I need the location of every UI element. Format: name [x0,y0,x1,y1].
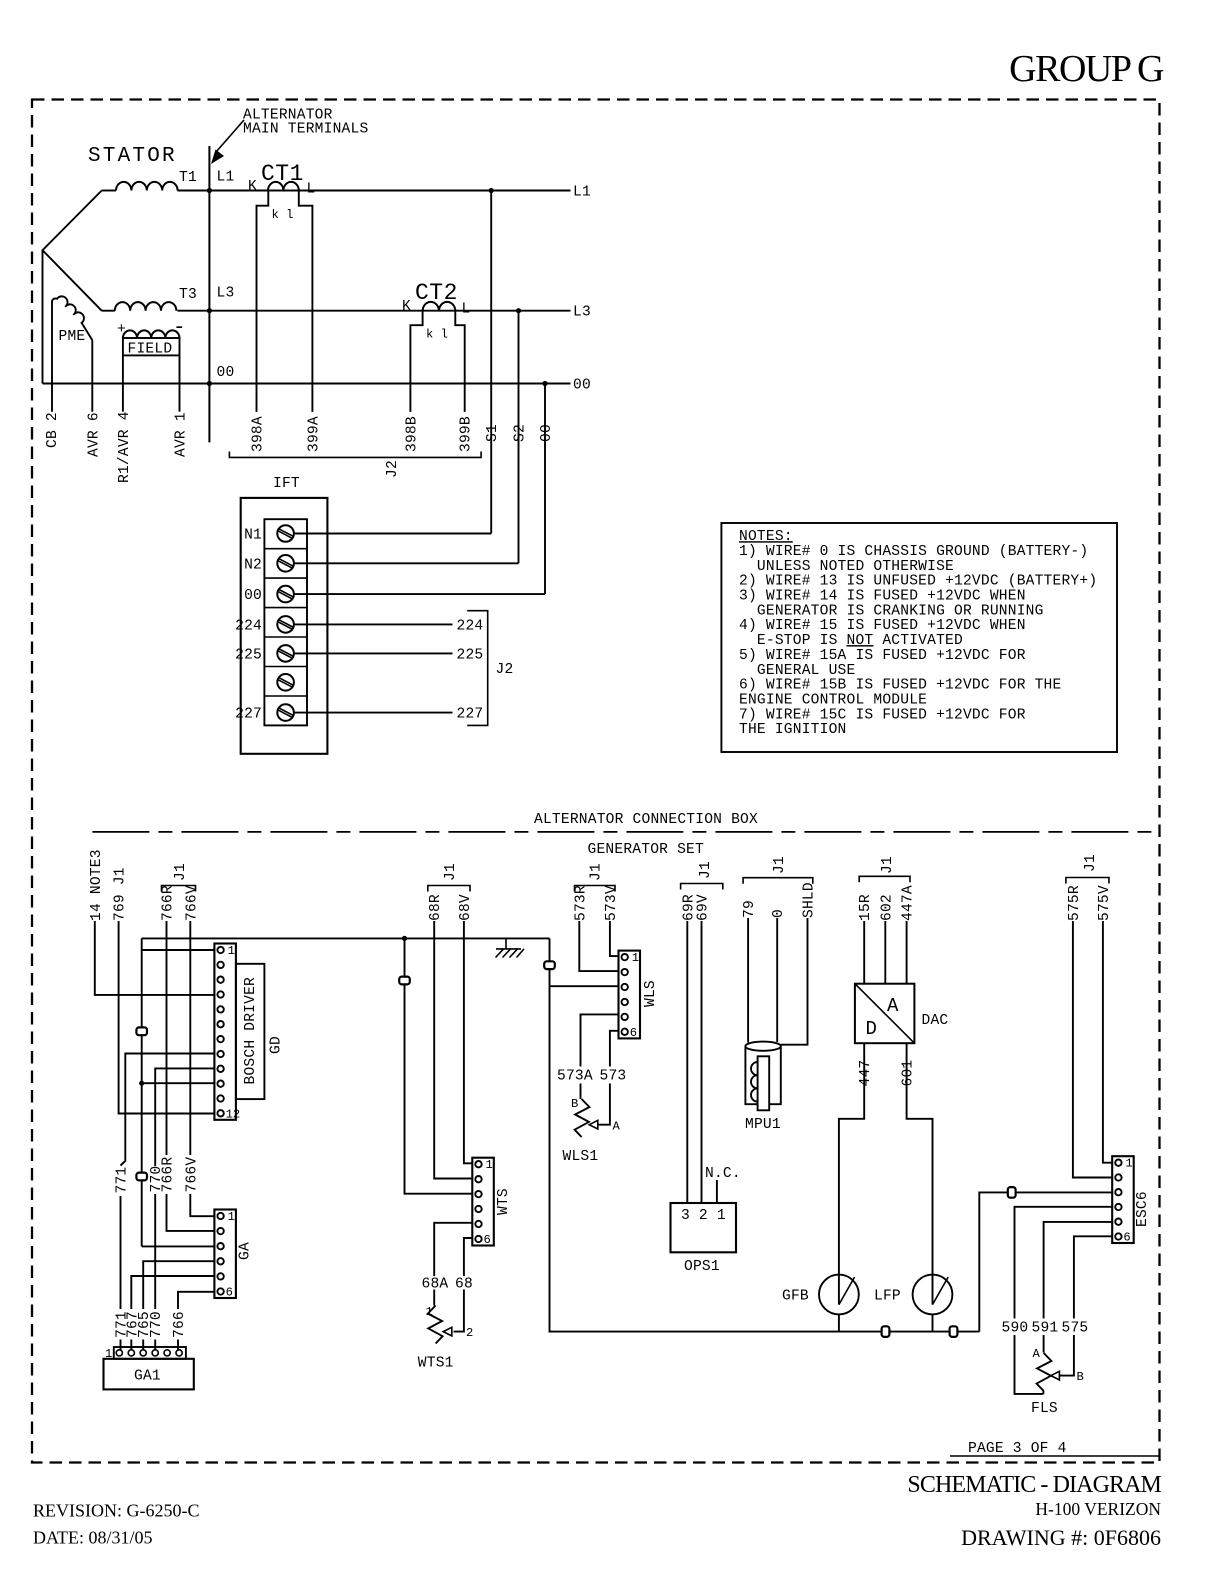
svg-text:0: 0 [771,909,787,918]
wire AVR 6 [91,340,93,412]
svg-text:J1: J1 [173,863,189,881]
svg-text:CB 2: CB 2 [45,412,61,448]
svg-text:D: D [866,1018,877,1040]
switch OPS1 [671,1203,737,1252]
wire 573R to WLS pin2 [579,921,618,971]
svg-text:J1: J1 [443,863,459,881]
svg-text:227: 227 [235,707,262,723]
wire 601 [907,1043,933,1304]
svg-text:k l: k l [426,328,448,342]
wire 447A to DAC [906,921,908,984]
svg-text:k l: k l [272,208,294,222]
bracket J1 (766R/766V) [162,886,196,892]
svg-text:399A: 399A [306,416,322,452]
wire 573A [581,1014,619,1099]
svg-text:68: 68 [455,1277,473,1293]
svg-text:79: 79 [742,900,758,918]
svg-text:SCHEMATIC - DIAGRAM: SCHEMATIC - DIAGRAM [907,1472,1161,1498]
ground bus wire [142,937,550,939]
wire 766 [178,1292,214,1350]
svg-text:B: B [571,1097,578,1111]
wire 765 [143,1261,214,1350]
svg-text:399B: 399B [459,416,475,452]
svg-text:573V: 573V [604,885,620,921]
module BOSCH DRIVER [236,964,265,1099]
svg-text:447: 447 [858,1060,874,1087]
svg-text:225: 225 [457,647,484,663]
wire 602 to DAC [884,921,886,984]
splice on ESC6 feed [1008,1187,1016,1198]
svg-text:K: K [402,299,411,315]
svg-text:WTS1: WTS1 [418,1356,454,1372]
svg-text:591: 591 [1032,1321,1059,1337]
svg-text:AVR 1: AVR 1 [174,412,190,457]
wire 447 [839,1043,864,1304]
svg-text:WLS1: WLS1 [563,1149,599,1165]
svg-text:1) WIRE# 0 IS CHASSIS GROUND (: 1) WIRE# 0 IS CHASSIS GROUND (BATTERY-) [739,544,1088,560]
svg-text:J1: J1 [698,861,714,879]
connector WTS (6-pin) [472,1158,494,1246]
svg-text:GENERATOR IS CRANKING OR RUNNI: GENERATOR IS CRANKING OR RUNNING [739,603,1044,619]
splice on bottom bus (right) [950,1326,958,1337]
wire CB 2 [51,301,53,412]
svg-text:MAIN TERMINALS: MAIN TERMINALS [243,122,368,138]
stator winding T1 [102,190,116,192]
svg-text:6: 6 [484,1233,491,1247]
bracket J1 (DAC) [859,876,910,882]
wire riser to ESC6 pin3 [979,1192,1112,1331]
svg-text:A: A [1033,1347,1041,1361]
svg-text:6: 6 [1123,1231,1130,1245]
svg-text:-: - [173,317,188,340]
svg-text:T1: T1 [179,170,197,186]
wire 225 [294,652,453,654]
page dashed border [32,100,1160,1463]
svg-text:STATOR: STATOR [88,145,177,168]
svg-text:N2: N2 [244,557,262,573]
wire 575R to ESC6 pin2 [1073,921,1112,1178]
svg-text:PAGE 3 OF 4: PAGE 3 OF 4 [968,1441,1067,1457]
svg-text:766R: 766R [161,885,177,921]
svg-text:J1: J1 [880,856,896,874]
IFT terminal (blank) screw [277,674,294,691]
wire 14 NOTE3 to GD pin4 [95,921,215,995]
svg-text:447A: 447A [901,885,917,921]
svg-text:00: 00 [573,378,591,394]
svg-text:GA: GA [238,1242,254,1260]
sensor FLS [1037,1353,1052,1391]
wire 68R to WTS pin2 [434,921,472,1179]
svg-text:FLS: FLS [1031,1401,1058,1417]
wire 590 [1015,1207,1113,1394]
wire 00 line [43,383,571,385]
wire 15R to DAC [863,921,865,984]
svg-text:6: 6 [226,1286,233,1300]
svg-text:K: K [248,179,257,195]
svg-text:J2: J2 [385,460,401,478]
wire SHLD to MPU1 [781,918,808,1045]
svg-text:2) WIRE# 13 IS UNFUSED +12VDC: 2) WIRE# 13 IS UNFUSED +12VDC (BATTERY+) [739,574,1097,590]
svg-text:E-STOP IS NOT ACTIVATED: E-STOP IS NOT ACTIVATED [739,633,963,649]
exciter PME [52,296,92,340]
bracket J2 (CT secondary harness) [229,452,481,458]
svg-text:771: 771 [115,1167,131,1194]
IFT terminal 00 screw [277,586,294,603]
svg-text:00: 00 [539,424,555,442]
svg-text:770: 770 [149,1166,165,1193]
svg-text:T3: T3 [179,287,197,303]
svg-text:S1: S1 [485,424,501,442]
svg-text:575R: 575R [1067,885,1083,921]
sensor WLS1 [575,1099,590,1137]
wire 224 [294,623,453,625]
svg-text:L1: L1 [217,170,235,186]
svg-text:573A: 573A [557,1069,593,1085]
wire 227 [294,712,453,714]
svg-text:L3: L3 [573,305,591,321]
svg-text:573: 573 [600,1069,627,1085]
IFT terminal N2 screw [277,555,294,572]
main ground drop wire [550,938,980,1331]
svg-text:SHLD: SHLD [802,882,818,918]
svg-text:14 NOTE3: 14 NOTE3 [89,849,105,921]
svg-text:1: 1 [228,944,235,958]
svg-text:N1: N1 [244,528,262,544]
svg-text:1: 1 [632,951,639,965]
svg-text:7) WIRE# 15C IS FUSED +12VDC F: 7) WIRE# 15C IS FUSED +12VDC FOR [739,707,1026,723]
CT2 secondary wires [410,311,464,412]
wire 79 to MPU1 [747,918,749,1043]
wire N1 to S1 [294,533,491,535]
breaker LFP [913,1275,953,1315]
bracket J1 (ESC6) [1066,878,1109,884]
splice on wire 0 [136,1027,147,1035]
svg-text:15R: 15R [858,894,874,921]
IFT terminal N1 screw [277,525,294,542]
svg-text:766: 766 [172,1311,188,1338]
svg-text:S2: S2 [513,424,529,442]
svg-text:769 J1: 769 J1 [113,867,129,921]
svg-text:CT1: CT1 [261,161,304,187]
IFT terminal 227 screw [277,704,294,721]
svg-text:L: L [307,182,316,198]
svg-text:68A: 68A [422,1277,449,1293]
svg-text:68V: 68V [458,894,474,921]
wire R1/AVR 4 [122,355,124,411]
bracket J1 (69R/69V) [681,884,723,890]
svg-text:575: 575 [1062,1321,1089,1337]
converter DAC [855,984,915,1043]
wire 766R to GA pin2 [167,921,215,1231]
node L1/S1 junction [489,188,494,193]
svg-text:12: 12 [226,1107,241,1121]
connector GD (12-pin) [214,944,236,1120]
svg-text:B: B [1077,1370,1084,1384]
wire 766V to GA pin1 [190,921,214,1216]
svg-text:573R: 573R [573,885,589,921]
wire L3 line [178,310,571,312]
svg-text:2: 2 [466,1326,473,1340]
field winding FIELD [123,330,180,338]
wire 769 to GD pin12 [119,921,215,1114]
wire 0 chain (bus to GD pin1/pin10, GA pin3) [142,938,215,1246]
svg-text:H-100 VERIZON: H-100 VERIZON [1035,1499,1161,1519]
svg-text:J1: J1 [589,863,605,881]
svg-text:1: 1 [426,1305,433,1319]
terminal strip of GA1 [114,1347,186,1359]
svg-text:68R: 68R [428,894,444,921]
svg-text:766V: 766V [184,885,200,921]
svg-text:REVISION: G-6250-C: REVISION: G-6250-C [33,1501,200,1521]
wire 00 drop [544,384,546,595]
wire S2 [518,311,520,564]
svg-text:BOSCH DRIVER: BOSCH DRIVER [243,977,259,1085]
svg-text:GENERAL USE: GENERAL USE [739,663,855,679]
breaker GFB [819,1275,859,1315]
svg-text:J1: J1 [1083,854,1099,872]
bracket J1 (68R/68V) [428,886,470,892]
svg-text:N.C.: N.C. [705,1166,741,1182]
wire 69R to OPS1 [686,921,688,1203]
svg-text:4) WIRE# 15 IS FUSED +12VDC WH: 4) WIRE# 15 IS FUSED +12VDC WHEN [739,618,1026,634]
bracket J2 (IFT outputs) [467,611,488,726]
module GA1 [104,1359,194,1390]
svg-text:6: 6 [630,1026,637,1040]
svg-text:FIELD: FIELD [128,342,173,358]
svg-text:227: 227 [457,707,484,723]
chassis ground symbol [496,938,525,957]
node L1/main-terminal junction [207,188,212,193]
NOTES box [721,523,1117,752]
stator winding T3 [102,310,115,312]
svg-text:WLS: WLS [643,980,659,1007]
svg-text:DRAWING #: 0F6806: DRAWING #: 0F6806 [961,1525,1161,1550]
svg-text:ESC6: ESC6 [1135,1191,1151,1227]
svg-text:3 2 1: 3 2 1 [681,1208,726,1224]
connector WLS (6-pin) [619,951,641,1039]
svg-text:ALTERNATOR CONNECTION BOX: ALTERNATOR CONNECTION BOX [534,812,758,828]
splice on bottom bus (left) [882,1326,890,1337]
svg-text:L3: L3 [217,286,235,302]
svg-text:224: 224 [235,618,262,634]
svg-text:GD: GD [269,1036,285,1054]
wire 68V to WTS pin1 [464,921,472,1163]
wire 591 [1044,1222,1113,1353]
svg-text:1: 1 [486,1158,493,1172]
alternator connection box dashed line [92,831,1155,833]
svg-text:R1/AVR 4: R1/AVR 4 [117,411,133,483]
wire 767 [131,1276,214,1350]
svg-text:398B: 398B [404,416,420,452]
connector ESC6 (6-pin) [1112,1156,1134,1243]
wye apex wires [43,191,102,384]
svg-text:1: 1 [1125,1157,1132,1171]
IFT terminal 224 screw [277,616,294,633]
pickup MPU1 [745,1042,780,1051]
svg-text:IFT: IFT [273,476,300,492]
wire N2 to S2 [294,562,519,564]
wire 68A [434,1223,472,1306]
svg-text:AVR 6: AVR 6 [87,412,103,457]
svg-text:DATE: 08/31/05: DATE: 08/31/05 [33,1528,153,1548]
wire 68 [454,1238,473,1332]
connector GA (6-pin) [214,1210,236,1299]
wire 0 to MPU1 [776,918,778,1042]
wire 573 [598,1031,619,1125]
svg-text:A: A [613,1120,621,1134]
svg-text:767: 767 [125,1311,141,1338]
svg-text:GENERATOR SET: GENERATOR SET [588,842,704,858]
svg-text:6) WIRE# 15B IS FUSED +12VDC F: 6) WIRE# 15B IS FUSED +12VDC FOR THE [739,678,1061,694]
svg-text:LFP: LFP [874,1289,901,1305]
node 00 junction [542,381,547,386]
node bus junction [402,936,407,941]
svg-text:THE IGNITION: THE IGNITION [739,722,847,738]
splice on WTS feed [399,977,410,985]
svg-text:1: 1 [228,1210,235,1224]
svg-text:NOTES:: NOTES: [739,529,793,545]
svg-text:00: 00 [244,588,262,604]
svg-text:ENGINE CONTROL MODULE: ENGINE CONTROL MODULE [739,692,927,708]
svg-text:UNLESS NOTED OTHERWISE: UNLESS NOTED OTHERWISE [739,559,954,575]
wire 69V to OPS1 [701,921,703,1203]
svg-text:225: 225 [235,647,262,663]
svg-text:L: L [462,302,471,318]
svg-text:575V: 575V [1097,885,1113,921]
svg-text:OPS1: OPS1 [684,1259,720,1275]
wire bus to WTS pin3 [405,938,473,1193]
wire 00 to 00 drop [294,593,545,595]
svg-text:224: 224 [457,618,484,634]
svg-text:69V: 69V [696,894,712,921]
bracket J1 (MPU1) [743,878,813,884]
wire 771 [121,1054,215,1351]
IFT terminal 225 screw [277,645,294,662]
svg-text:00: 00 [217,365,235,381]
wire 573V to WLS pin1 [610,921,619,956]
wire 575V to ESC6 pin1 [1103,921,1112,1163]
wire 770 [155,1068,214,1350]
svg-text:WTS: WTS [496,1188,512,1215]
svg-text:398A: 398A [251,416,267,452]
node L3/S2 junction [516,308,521,313]
wire S1 [490,191,492,534]
sensor WTS1 [428,1306,443,1344]
alternator main terminals vertical line [208,146,210,442]
CT1 secondary wires [257,191,313,412]
wire L1 line [178,190,571,192]
svg-text:L1: L1 [573,185,591,201]
wire 575 [1060,1236,1113,1375]
svg-text:766V: 766V [184,1157,200,1193]
svg-text:J2: J2 [496,662,514,678]
svg-text:GA1: GA1 [134,1369,161,1385]
wire to WLS pin3 [550,985,619,987]
svg-text:590: 590 [1002,1321,1029,1337]
svg-text:A: A [887,995,899,1017]
svg-text:601: 601 [901,1060,917,1087]
splice on wire 0 (lower) [136,1173,147,1181]
svg-text:3) WIRE# 14 IS FUSED +12VDC WH: 3) WIRE# 14 IS FUSED +12VDC WHEN [739,589,1026,605]
svg-text:602: 602 [879,894,895,921]
svg-text:GROUP G: GROUP G [1009,48,1164,90]
svg-text:PME: PME [59,329,86,345]
svg-text:5) WIRE# 15A IS FUSED +12VDC F: 5) WIRE# 15A IS FUSED +12VDC FOR [739,648,1026,664]
svg-text:J1: J1 [772,856,788,874]
bracket J1 (573R/573V) [575,886,616,892]
svg-text:GFB: GFB [782,1289,809,1305]
wire AVR 1 [179,355,181,411]
svg-text:+: + [117,322,126,338]
svg-text:DAC: DAC [922,1013,949,1029]
svg-text:MPU1: MPU1 [745,1117,781,1133]
